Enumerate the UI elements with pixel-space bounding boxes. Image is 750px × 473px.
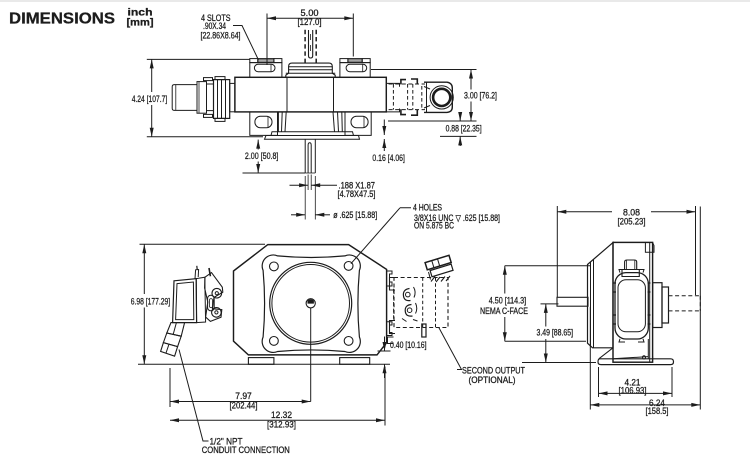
second output left corner bracket top — [390, 278, 396, 291]
dim 0.40 upper arrow — [384, 337, 386, 343]
svg-text:[158.5]: [158.5] — [646, 406, 669, 416]
side view base support right — [647, 339, 649, 359]
dim 4.21 extension right — [671, 367, 673, 397]
motor fan end inner lines — [426, 82, 428, 112]
dim 2.00 extension bottom — [243, 172, 306, 174]
dim 12.32 line and arrows — [170, 418, 179, 422]
front view right foot — [340, 358, 370, 365]
left shaft retainer flange — [214, 80, 230, 119]
front view ground line — [138, 363, 390, 365]
side view output housing step1 — [653, 283, 662, 328]
left shaft end chamfer — [175, 85, 177, 111]
dim 4.24 extension top — [147, 58, 250, 60]
top-left tab slot — [254, 64, 275, 71]
dim 4.50 extension top — [505, 265, 590, 267]
front view shaft hole — [306, 299, 315, 308]
lower shaft keyway — [308, 143, 311, 173]
second output left corner bracket bottom — [390, 321, 396, 334]
dim 6.24 extension right — [699, 207, 701, 410]
side view base plate — [598, 359, 674, 365]
top view upper shaft dashed outline — [304, 30, 306, 63]
dim 3.49 line and arrows — [544, 304, 548, 313]
top-right tab slot — [346, 64, 367, 71]
top view bottom-left tab — [250, 112, 278, 135]
dim 3.00 extension bottom — [388, 120, 477, 122]
side view output housing step2 — [662, 287, 669, 323]
motor dashed verticals — [392, 84, 394, 110]
left shaft collar — [197, 82, 207, 114]
svg-text:12.32: 12.32 — [271, 410, 292, 420]
top view top-left mounting tab — [250, 63, 282, 78]
front view right edge clip top — [387, 271, 392, 286]
dim 4.21 extension left — [598, 367, 600, 397]
conduit terminal box inner — [176, 282, 194, 320]
svg-text:SECOND OUTPUT: SECOND OUTPUT — [462, 365, 525, 375]
svg-text:ø .625 [15.88]: ø .625 [15.88] — [333, 210, 377, 220]
dim 7.97 line and arrows — [170, 400, 179, 404]
dim 8.08 line and arrows — [557, 210, 566, 214]
side view left shaft — [557, 297, 588, 306]
svg-text:[202.44]: [202.44] — [230, 401, 258, 411]
top view bottom flange plate upper — [271, 132, 354, 136]
front view C-face plate scalloped — [262, 255, 360, 352]
svg-text:0.88 [22.35]: 0.88 [22.35] — [446, 123, 482, 133]
svg-text:[4.78X47.5]: [4.78X47.5] — [338, 189, 376, 199]
conduit mounting plate — [196, 277, 205, 322]
top view upper shaft center dashes — [310, 34, 312, 40]
dim 5.00 extension lines — [266, 14, 268, 66]
hub stack lines — [289, 66, 333, 68]
top-left tab right ear — [274, 59, 282, 63]
motor adapter notch top — [386, 83, 399, 86]
dim 2.00 line and arrows — [256, 140, 260, 149]
dim 6.24 line and arrows — [590, 403, 599, 407]
conduit hinge pivot screw bottom — [212, 308, 222, 318]
top view left neck — [230, 83, 235, 111]
second output clamp squiggle top — [403, 289, 410, 301]
top-right tab bar — [348, 59, 362, 63]
side view conduit box outer — [615, 273, 648, 339]
dim .625 arrows — [296, 213, 305, 217]
dim .625 extension lines — [304, 176, 306, 220]
side view conduit box inner — [618, 280, 645, 332]
top-left tab left ear — [250, 59, 258, 63]
svg-text:CONDUIT CONNECTION: CONDUIT CONNECTION — [202, 445, 290, 455]
motor dashed outline bottom — [389, 109, 425, 111]
svg-text:NEMA C-FACE: NEMA C-FACE — [480, 306, 528, 316]
svg-text:[106.93]: [106.93] — [619, 386, 647, 396]
side view output shaft dashed — [669, 295, 701, 297]
top-right tab left ear — [340, 59, 348, 63]
svg-text:2.00 [50.8]: 2.00 [50.8] — [245, 151, 279, 161]
top view bottom flange plate lower — [265, 136, 360, 140]
front view pilot circle outer — [270, 262, 352, 344]
side view breather cap — [625, 260, 637, 270]
front view pilot circle inner — [272, 265, 350, 343]
faint scan edge at top — [0, 0, 750, 2]
top view bottom flange risers left — [277, 112, 279, 132]
svg-text:4.50 [114.3]: 4.50 [114.3] — [489, 296, 527, 306]
svg-text:4 HOLES: 4 HOLES — [413, 202, 442, 212]
front view hidden line right — [393, 289, 395, 319]
front view bolt hole top-right — [344, 262, 353, 271]
top view lower output shaft — [304, 139, 306, 173]
front view bolt hole bottom-right — [344, 337, 353, 346]
dim 0.88 extension bottom — [440, 135, 477, 137]
front view bolt hole top-left — [270, 262, 279, 271]
motor fan end bracket — [424, 82, 452, 112]
side view body inner vertical — [649, 242, 651, 362]
npt leader — [179, 350, 209, 442]
dim 8.08 extension right — [695, 206, 697, 295]
svg-text:.90X.34: .90X.34 — [203, 21, 226, 31]
front view bolt hole bottom-left — [270, 337, 279, 346]
top-right tab right ear — [362, 59, 370, 63]
svg-text:6.98 [177.29]: 6.98 [177.29] — [131, 296, 171, 306]
front view right edge clip bottom — [387, 322, 392, 336]
side view base support left — [599, 348, 613, 359]
dim 4.50 line and arrows — [503, 266, 507, 275]
svg-text:ON 5.875 BC: ON 5.875 BC — [414, 221, 454, 231]
dim 0.40 extension line — [378, 350, 391, 352]
left shaft spacer — [207, 84, 214, 111]
dim 8.08 extension left — [556, 206, 558, 297]
top view top hub — [286, 63, 335, 77]
dim .188 key extension lines — [307, 175, 309, 191]
svg-text:[22.86X8.64]: [22.86X8.64] — [201, 31, 241, 41]
top view body section lines — [286, 77, 288, 112]
dim 0.16 upper arrow — [383, 120, 385, 127]
conduit hinge bracket outline — [205, 273, 223, 322]
top view top-right mounting tab — [340, 63, 370, 78]
bottom-right tab slot — [351, 116, 368, 127]
conduit hinge link — [208, 295, 215, 311]
dim 7.97 extension left — [169, 368, 171, 407]
conduit fitting segment3 — [161, 343, 178, 357]
top view upper shaft keyway solid lines — [309, 30, 313, 58]
side view conduit box bottom bumps — [619, 339, 644, 342]
dim 4.21 line and arrows — [599, 391, 608, 395]
bottom-left tab slot — [255, 116, 272, 127]
side view conduit box top bumps — [619, 270, 644, 273]
dim 6.98 extension top — [140, 243, 266, 245]
left output shaft end — [172, 85, 197, 111]
front view shaft key — [308, 299, 314, 303]
svg-text:(OPTIONAL): (OPTIONAL) — [469, 375, 516, 385]
side view conduit box clips — [613, 283, 616, 324]
svg-text:4.24 [107.7]: 4.24 [107.7] — [132, 94, 168, 104]
top view main body — [235, 77, 386, 112]
top-left tab hatched bar — [258, 59, 274, 63]
svg-text:3.49 [88.65]: 3.49 [88.65] — [537, 328, 574, 338]
svg-text:0.16 [4.06]: 0.16 [4.06] — [372, 153, 405, 163]
dim 6.98 line and arrows — [142, 244, 146, 253]
dim 4.24 extension bottom — [147, 136, 263, 138]
second output dashed inner lines — [422, 278, 424, 328]
dim 4.50 extension bottom — [505, 340, 586, 342]
dim 0.40 lower arrow — [383, 364, 387, 373]
dim 6.24 extension left — [589, 307, 591, 410]
dim 12.32 extension right — [384, 367, 386, 426]
conduit hinge pivot screw top — [212, 288, 222, 298]
conduit fitting segment1 — [167, 323, 185, 337]
side view body top step — [645, 242, 654, 252]
left shaft top set screws — [204, 78, 213, 81]
svg-text:[mm]: [mm] — [127, 17, 154, 29]
svg-text:[312.93]: [312.93] — [267, 420, 296, 430]
front view leader to center — [310, 308, 312, 402]
motor dashed outline top — [389, 83, 425, 85]
dim .188 arrows — [299, 183, 308, 187]
conduit terminal box outer — [173, 279, 197, 323]
dim 4.24 line and arrows — [150, 59, 154, 68]
dim 3.00 line and arrows — [469, 70, 473, 79]
side view plate inner lines — [590, 262, 592, 346]
svg-text:0.40 [10.16]: 0.40 [10.16] — [390, 340, 427, 350]
conduit hinge top screw — [209, 268, 210, 276]
dim 3.49 extension top — [541, 303, 559, 305]
top view bottom flange risers right — [333, 112, 335, 132]
conduit box top stub — [195, 270, 199, 279]
svg-text:DIMENSIONS: DIMENSIONS — [9, 11, 115, 28]
dim 3.00 extension top — [371, 69, 477, 71]
motor clamp top — [401, 79, 417, 84]
second output tilted conduit bars — [425, 255, 453, 277]
front view left foot — [248, 358, 274, 365]
side view motor body — [613, 242, 653, 362]
motor fan circle — [433, 89, 450, 106]
top view bottom-right tab — [345, 112, 371, 135]
dim 0.16 lower arrow — [382, 139, 386, 148]
side view base top slant — [613, 357, 648, 359]
4 holes leader — [351, 208, 411, 264]
motor clamp bottom — [401, 109, 417, 115]
second output bottom solid bar — [422, 324, 426, 337]
svg-text:7.97: 7.97 — [235, 391, 252, 401]
4 slots leader — [233, 26, 259, 61]
second output dashed box — [394, 278, 448, 328]
motor adapter notch bottom — [386, 109, 399, 112]
second output leader — [439, 328, 462, 370]
front view motor octagonal outline — [234, 245, 387, 355]
svg-text:[205.23]: [205.23] — [618, 216, 646, 226]
dim 3.49 extension bottom — [522, 362, 596, 364]
second output hatch marks — [431, 276, 450, 282]
conduit fitting segment2 — [163, 333, 181, 347]
second output clamp squiggle bottom — [405, 305, 412, 317]
side view base screw — [642, 356, 645, 359]
dim 0.88 arrows — [458, 112, 462, 121]
side view C-face plate — [588, 243, 614, 348]
left shaft bottom set screws — [204, 114, 213, 117]
svg-text:3.00 [76.2]: 3.00 [76.2] — [464, 91, 497, 101]
svg-text:[127.0]: [127.0] — [298, 17, 322, 27]
dim 5.00 line and arrows — [267, 16, 276, 20]
